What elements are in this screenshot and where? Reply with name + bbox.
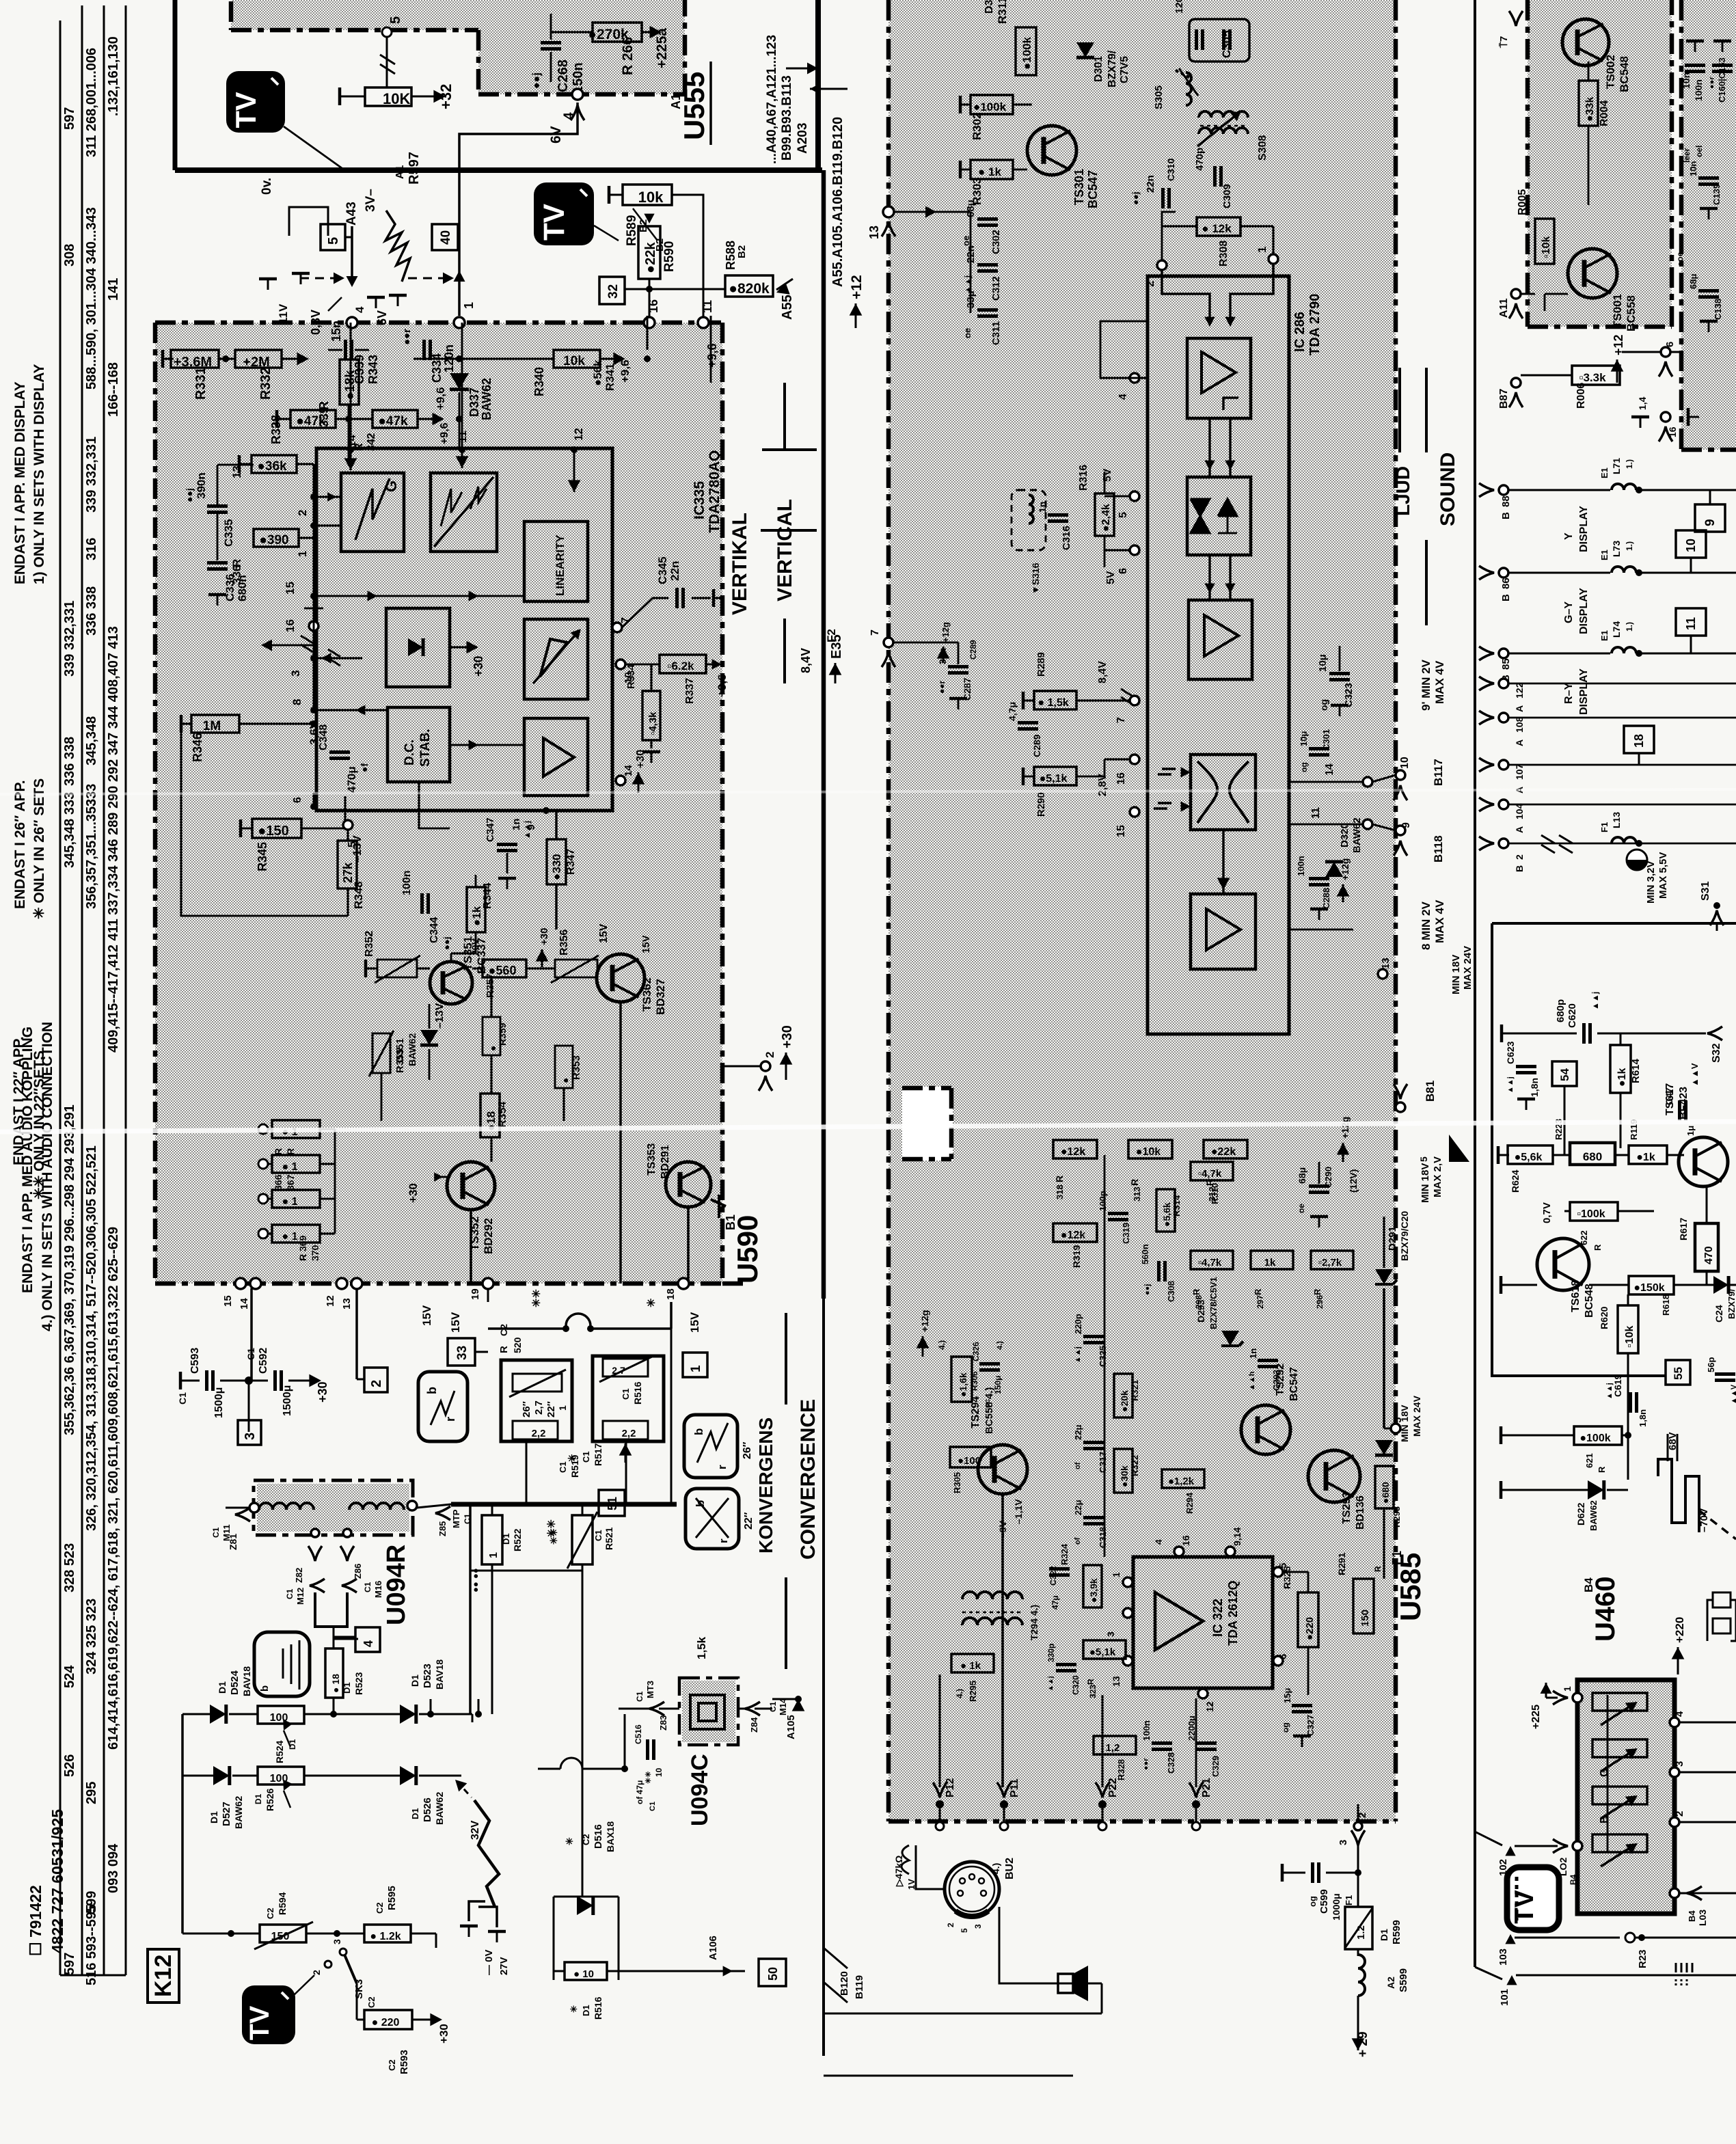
capacitor C344 100n — [422, 893, 429, 914]
svg-text:093 094: 093 094 — [106, 1843, 121, 1893]
svg-text:10: 10 — [654, 1767, 664, 1777]
svg-text:S308: S308 — [1257, 135, 1269, 161]
speaker symbol — [1058, 1974, 1073, 1993]
svg-text:C139: C139 — [1711, 184, 1722, 205]
svg-text:●2,4k: ●2,4k — [1100, 504, 1112, 532]
svg-text:R348: R348 — [352, 881, 365, 909]
svg-text:+9,6: +9,6 — [434, 387, 447, 410]
svg-text:3: 3 — [1105, 1631, 1116, 1637]
svg-text:R: R — [1597, 1466, 1607, 1473]
svg-text:B120: B120 — [839, 1971, 850, 1996]
LO2 pin left — [1573, 1841, 1582, 1851]
svg-text:11: 11 — [1310, 807, 1322, 819]
C623 1.8n — [1516, 1067, 1536, 1073]
svg-text:R519: R519 — [569, 1454, 580, 1478]
svg-text:+30: +30 — [780, 1025, 795, 1048]
svg-text:1M: 1M — [203, 719, 221, 733]
svg-text:C348: C348 — [318, 724, 329, 750]
svg-text:●5,6k: ●5,6k — [1161, 1202, 1172, 1227]
svg-text:D1: D1 — [409, 1674, 420, 1687]
svg-text:S31: S31 — [1700, 881, 1711, 901]
svg-text:1k: 1k — [1264, 1257, 1276, 1268]
svg-text:R325: R325 — [1281, 1566, 1292, 1589]
svg-text:680p: 680p — [1555, 999, 1567, 1022]
resistor R339 18k vertical — [340, 359, 359, 405]
svg-text:✳ ONLY IN 26″ SETS: ✳ ONLY IN 26″ SETS — [31, 778, 47, 919]
svg-text:D1: D1 — [410, 1808, 420, 1819]
svg-text:LINEARITY: LINEARITY — [554, 534, 567, 596]
svg-text:D1: D1 — [581, 2005, 591, 2016]
svg-text:680n: 680n — [236, 575, 249, 601]
+12 arrow right top — [1616, 359, 1618, 383]
scan crease line — [0, 1122, 1736, 1132]
C319 100p cap — [1108, 1214, 1128, 1220]
svg-text:C319: C319 — [1121, 1223, 1131, 1244]
R594 150 pot box — [254, 1922, 313, 1949]
svg-text:B99.B93.B113: B99.B93.B113 — [780, 75, 794, 161]
IC322 amp triangle — [1155, 1592, 1203, 1650]
svg-text:680: 680 — [1583, 1150, 1602, 1163]
resistor R589 10k — [623, 185, 672, 205]
27V 0V step symbol — [469, 1901, 485, 1921]
svg-text:+9,6: +9,6 — [705, 343, 719, 368]
svg-text:BC548: BC548 — [1584, 1284, 1595, 1318]
svg-text:C326: C326 — [971, 1342, 981, 1361]
DIN connector BU2 — [945, 1862, 999, 1916]
svg-text:SOUND: SOUND — [1437, 452, 1459, 526]
svg-text:+220: +220 — [1673, 1617, 1686, 1643]
svg-text:C335: C335 — [222, 519, 235, 547]
IC286 X block — [1191, 755, 1256, 830]
svg-text:101: 101 — [1499, 1989, 1510, 2006]
svg-text:.132,161,130: .132,161,130 — [106, 36, 121, 116]
svg-text:524: 524 — [62, 1665, 77, 1688]
resistor R334 4.3k vertical — [642, 691, 660, 740]
svg-text:R620: R620 — [1599, 1306, 1610, 1329]
svg-text:13: 13 — [230, 465, 243, 478]
svg-text:+30: +30 — [437, 2024, 450, 2044]
C307 39n cap — [948, 667, 968, 673]
transistor TS293 BD136 — [1308, 1450, 1360, 1502]
pin 1 bubble — [454, 317, 465, 328]
resistor R319 12k — [1053, 1223, 1097, 1242]
box 40 — [432, 224, 458, 250]
svg-text:VERTIKAL: VERTIKAL — [729, 513, 751, 615]
svg-text:1,2: 1,2 — [1106, 1742, 1120, 1754]
svg-text:C1: C1 — [593, 1530, 603, 1541]
box 51 — [599, 1490, 625, 1516]
transistor TS618 BC548 — [1537, 1238, 1589, 1290]
svg-text:R324: R324 — [1059, 1543, 1070, 1565]
svg-text:15V: 15V — [688, 1312, 701, 1333]
svg-text:100n: 100n — [1141, 1720, 1152, 1741]
svg-text:Y: Y — [1563, 532, 1575, 540]
svg-text:13: 13 — [1111, 1676, 1122, 1687]
svg-text:4: 4 — [353, 306, 366, 313]
svg-text:1: 1 — [462, 302, 476, 309]
svg-text:9,14: 9,14 — [1232, 1528, 1243, 1546]
pin 3 left edge — [310, 655, 317, 662]
diode BZX79 C24 — [1713, 1276, 1728, 1294]
svg-text:5: 5 — [326, 237, 341, 245]
wires around IC286 input — [1162, 212, 1176, 270]
svg-text:4.): 4.) — [996, 1341, 1004, 1350]
svg-text:C138: C138 — [1713, 299, 1723, 320]
svg-text:11: 11 — [1684, 617, 1698, 630]
svg-text:C308: C308 — [1166, 1281, 1176, 1302]
C300 C301 C288 caps cluster — [1309, 749, 1329, 755]
svg-text:R: R — [1054, 1176, 1065, 1182]
svg-text:C345: C345 — [656, 556, 669, 584]
transistor TS362 BD327 — [597, 954, 645, 1002]
svg-text:7: 7 — [869, 629, 881, 636]
svg-text:104: 104 — [1514, 803, 1525, 819]
R306 1.6k vertical — [951, 1357, 972, 1402]
svg-text:TDA2780AQ: TDA2780AQ — [707, 450, 722, 533]
row A104 — [1499, 800, 1508, 809]
svg-text:40: 40 — [439, 230, 453, 245]
svg-text:A55: A55 — [780, 295, 795, 320]
svg-text:Z85: Z85 — [437, 1521, 448, 1536]
svg-text:●20k: ●20k — [1119, 1390, 1130, 1412]
svg-text:KONVERGENS: KONVERGENS — [755, 1417, 776, 1553]
R589 pointer from TV logo — [594, 226, 619, 241]
box 2 — [364, 1368, 388, 1392]
svg-text:B81: B81 — [1424, 1081, 1437, 1102]
svg-text:R294: R294 — [1184, 1492, 1195, 1514]
svg-text:R617: R617 — [1678, 1217, 1689, 1240]
svg-text:R526: R526 — [265, 1788, 275, 1811]
103 arrow + R23 — [1505, 1934, 1515, 1944]
svg-text:● 1: ● 1 — [282, 1161, 297, 1173]
resistor R336 390 — [254, 529, 299, 547]
svg-text:18: 18 — [1632, 734, 1646, 748]
svg-text:●●j: ●●j — [531, 72, 543, 89]
A105 arrow — [795, 1696, 802, 1702]
svg-text:330p: 330p — [1046, 1644, 1056, 1662]
svg-text:Z86: Z86 — [353, 1564, 363, 1579]
svg-text:▲▲j: ▲▲j — [1047, 1676, 1055, 1692]
svg-text:MAX 4V: MAX 4V — [1433, 660, 1446, 704]
svg-text:D1: D1 — [288, 1739, 297, 1750]
big right box — [1492, 923, 1736, 1376]
svg-text:D524: D524 — [229, 1670, 241, 1695]
svg-text:C309: C309 — [1221, 184, 1233, 208]
svg-text:K12: K12 — [150, 1955, 176, 1997]
svg-text:4: 4 — [1674, 1711, 1685, 1717]
svg-text:CONVERGENCE: CONVERGENCE — [797, 1399, 819, 1560]
svg-text:A: A — [1514, 705, 1525, 712]
svg-text:C1: C1 — [363, 1582, 372, 1592]
A11 pin — [1511, 289, 1521, 299]
D516 BAX18 bracket unit — [553, 1897, 555, 1980]
svg-text:1.): 1.) — [1625, 622, 1634, 632]
pin 16 wire down — [644, 317, 655, 328]
svg-text:100n: 100n — [401, 871, 413, 895]
wire row2 — [182, 1775, 213, 1777]
svg-text:22″: 22″ — [743, 1512, 755, 1530]
svg-text:leer: leer — [1682, 148, 1692, 163]
svg-text:10k: 10k — [563, 354, 585, 368]
svg-text:BAW62: BAW62 — [233, 1796, 244, 1829]
resistor R302 100k — [971, 95, 1013, 114]
svg-text:og: og — [1299, 762, 1309, 772]
svg-text:▫10k: ▫10k — [1541, 236, 1552, 258]
svg-text:R343: R343 — [366, 355, 380, 384]
IC286 amp3 block — [1191, 894, 1256, 969]
svg-text:R356: R356 — [558, 929, 570, 955]
svg-text:BC558: BC558 — [1625, 295, 1638, 331]
svg-text:345,348 333: 345,348 333 — [62, 792, 77, 868]
svg-text:B119: B119 — [854, 1975, 865, 1999]
svg-text:F1: F1 — [1390, 1551, 1404, 1565]
svg-text:BAV18: BAV18 — [241, 1666, 252, 1696]
pin 4 bubble on border — [347, 317, 357, 328]
svg-text:R 266: R 266 — [620, 37, 636, 75]
R324 3.9k vertical — [1083, 1565, 1102, 1607]
svg-text:C316: C316 — [1061, 526, 1072, 550]
svg-text:614,414,616,619,622--624, 617: 614,414,616,619,622--624, 617,618, 321, … — [106, 1227, 121, 1750]
transistor TS353 BD291 — [666, 1162, 711, 1207]
pin 15 16 left edge — [310, 593, 317, 599]
S308 coil — [1199, 111, 1248, 118]
svg-text:100p: 100p — [1098, 1191, 1108, 1211]
svg-text:✳✳: ✳✳ — [531, 1289, 543, 1307]
thick horizontal separator line y=249 — [175, 167, 822, 173]
svg-text:●5,1k: ●5,1k — [1040, 773, 1068, 785]
svg-text:1: 1 — [488, 1552, 500, 1558]
svg-text:R: R — [1191, 1288, 1202, 1295]
svg-text:B4: B4 — [1582, 1577, 1595, 1592]
svg-text:U094R: U094R — [382, 1545, 411, 1625]
svg-text:✳✳: ✳✳ — [546, 1519, 558, 1538]
svg-text:9: 9 — [1703, 519, 1718, 526]
svg-text:16: 16 — [1180, 1535, 1191, 1546]
svg-text:●●r: ●●r — [1142, 1758, 1150, 1770]
row A122 — [1499, 679, 1508, 688]
R599 1.2 box — [1345, 1907, 1372, 1949]
svg-text:BAW62: BAW62 — [480, 378, 493, 420]
svg-text:M16: M16 — [373, 1581, 383, 1598]
svg-text:C2: C2 — [387, 2059, 397, 2071]
resistor R311 100k vertical — [1016, 27, 1036, 75]
svg-text:470p: 470p — [1194, 148, 1206, 171]
svg-text:BC547: BC547 — [1288, 1367, 1300, 1401]
svg-text:C301: C301 — [1321, 729, 1331, 750]
pin 9 bottom of IC335 — [543, 807, 550, 814]
svg-text:b: b — [259, 1685, 271, 1692]
C320 330p cap — [1056, 1665, 1076, 1671]
U094R coils — [259, 1503, 314, 1510]
resistor R303 1k — [971, 160, 1013, 179]
svg-text:336 338: 336 338 — [62, 737, 77, 786]
svg-text:2: 2 — [763, 1052, 776, 1058]
svg-text:27V: 27V — [498, 1957, 510, 1975]
svg-text:R295: R295 — [968, 1681, 978, 1702]
svg-text:520: 520 — [512, 1337, 523, 1353]
svg-text:b: b — [425, 1387, 439, 1394]
svg-text:R589: R589 — [625, 215, 639, 246]
svg-text:L74: L74 — [1611, 621, 1622, 638]
svg-text:✳: ✳ — [569, 2005, 579, 2013]
rounded box bVr 26 — [684, 1415, 737, 1478]
svg-text:+30: +30 — [407, 1183, 420, 1203]
svg-text:BAW62: BAW62 — [407, 1033, 418, 1066]
svg-text:● 12k: ● 12k — [1202, 222, 1232, 235]
pin 13 12 3 lower right of IC286 — [1378, 969, 1387, 979]
102 arrow — [1505, 1846, 1515, 1856]
svg-text:R521: R521 — [603, 1527, 614, 1550]
capacitor C311 33u — [977, 310, 998, 316]
svg-text:12: 12 — [572, 428, 585, 441]
display row G-Y B86 — [1499, 568, 1508, 578]
svg-text:55: 55 — [1672, 1367, 1685, 1380]
R314 5.6k vertical — [1156, 1189, 1175, 1232]
pin16 arrow left +9.6 — [267, 644, 314, 647]
U585 right edge nodes y2090 — [1391, 1424, 1400, 1433]
svg-text:R359: R359 — [497, 1022, 508, 1046]
module U585 SOUND halftone area — [889, 0, 1396, 1821]
U460 right pins — [1670, 1718, 1679, 1727]
svg-text:BAW62: BAW62 — [1588, 1500, 1599, 1531]
svg-text:323: 323 — [1088, 1685, 1098, 1698]
svg-text:C516: C516 — [634, 1724, 643, 1744]
svg-text:22″: 22″ — [545, 1401, 557, 1417]
svg-text:6: 6 — [1664, 342, 1676, 347]
R622 100k — [1570, 1202, 1618, 1221]
svg-text:C1: C1 — [768, 1701, 778, 1712]
svg-text:●47k: ●47k — [378, 414, 408, 429]
svg-text:R594: R594 — [277, 1892, 288, 1915]
svg-text:S599: S599 — [1398, 1968, 1409, 1992]
svg-text:3: 3 — [1674, 1761, 1685, 1767]
svg-text:E1: E1 — [1599, 467, 1610, 478]
resistor R588 820k — [725, 275, 773, 297]
S305 coil + C305 block — [1189, 19, 1249, 62]
svg-text:+30: +30 — [316, 1381, 329, 1402]
svg-text:●●j: ●●j — [184, 488, 195, 502]
svg-text:6: 6 — [1277, 1654, 1289, 1659]
svg-text:R–Y: R–Y — [1563, 683, 1575, 704]
Z85 MTP connector right — [435, 1506, 450, 1520]
resistor ladder R366-R370 — [272, 1120, 320, 1138]
svg-text:8 MIN 2V: 8 MIN 2V — [1420, 901, 1433, 950]
svg-text:▲▲j: ▲▲j — [1590, 992, 1600, 1010]
svg-text:166--168: 166--168 — [106, 362, 121, 417]
svg-text:R516: R516 — [632, 1381, 643, 1405]
svg-text:220p: 220p — [1073, 1314, 1083, 1334]
svg-text:B117: B117 — [1432, 759, 1445, 786]
capacitor C316 1n — [1048, 515, 1068, 521]
svg-text:+9,6: +9,6 — [619, 359, 632, 383]
svg-text:▷47kΩ: ▷47kΩ — [893, 1856, 904, 1887]
R323 5.1k — [1083, 1640, 1126, 1659]
Z84 M14 connectors — [745, 1702, 760, 1715]
svg-text:R341: R341 — [603, 363, 616, 391]
svg-text:R: R — [1086, 1679, 1096, 1685]
svg-text:526: 526 — [62, 1754, 77, 1777]
svg-text:●820k: ●820k — [729, 281, 770, 297]
diode D301 BZX79 — [1076, 42, 1094, 57]
svg-text:TS292: TS292 — [1275, 1363, 1286, 1396]
svg-text:●●r: ●●r — [937, 681, 947, 694]
svg-text:...A40,A67,A121...123: ...A40,A67,A121...123 — [765, 35, 779, 164]
svg-text:R23: R23 — [1637, 1949, 1649, 1968]
D291 zener BZX79/C20 — [1375, 1269, 1397, 1284]
svg-text:316: 316 — [84, 538, 99, 560]
svg-text:C2: C2 — [265, 1908, 275, 1919]
svg-text:C320: C320 — [1071, 1675, 1081, 1695]
svg-text:▫4,3k: ▫4,3k — [647, 711, 659, 735]
small 2-box component — [1713, 1592, 1731, 1607]
svg-text:150μ: 150μ — [993, 1376, 1003, 1394]
svg-text:1.2: 1.2 — [1355, 1925, 1367, 1940]
svg-text:A: A — [1514, 739, 1525, 746]
svg-text:● 18: ● 18 — [330, 1674, 341, 1693]
svg-text:68μ: 68μ — [1688, 274, 1698, 289]
svg-text:1500μ: 1500μ — [213, 1387, 225, 1418]
svg-text:C2: C2 — [581, 1834, 591, 1845]
svg-text:MAX 24V: MAX 24V — [1462, 946, 1474, 990]
svg-text:R004: R004 — [1599, 100, 1610, 126]
svg-text:● 10: ● 10 — [573, 1968, 594, 1980]
svg-text:●150: ●150 — [258, 824, 288, 839]
long vertical bus line x=2158 — [1474, 0, 1476, 1967]
C318 22u cap — [1083, 1518, 1104, 1524]
svg-text:●1,2k: ●1,2k — [1168, 1476, 1195, 1487]
svg-text:2,2: 2,2 — [532, 1428, 546, 1439]
svg-text:●f: ●f — [359, 763, 370, 772]
A55 arrow — [774, 282, 790, 299]
svg-text:R595: R595 — [386, 1886, 398, 1910]
transistor TS001 BC558 — [1568, 249, 1617, 298]
resistor row 47k 47k — [290, 410, 336, 428]
svg-text:C290: C290 — [1323, 1167, 1333, 1188]
svg-text:og: og — [1318, 699, 1329, 711]
svg-text:367: 367 — [285, 1174, 296, 1191]
svg-text:324 325 323: 324 325 323 — [84, 1599, 99, 1674]
R355 var resistor — [372, 1033, 390, 1073]
svg-text:4.): 4.) — [937, 1340, 947, 1350]
svg-text:R523: R523 — [353, 1672, 364, 1695]
svg-text:●1,6k: ●1,6k — [958, 1372, 968, 1397]
6V T symbols — [367, 297, 385, 308]
R522 1 vertical — [482, 1515, 502, 1564]
top-left box left border — [173, 0, 178, 170]
svg-text:P22: P22 — [1107, 1778, 1119, 1797]
680 R293 vertical — [1375, 1466, 1394, 1508]
C329 2200u — [1196, 1743, 1217, 1750]
TV logo 2 — [534, 182, 594, 245]
diode D526 row2 — [400, 1766, 416, 1785]
svg-text:R352: R352 — [364, 931, 375, 957]
IC322 pins — [1123, 1577, 1133, 1587]
svg-text:6: 6 — [1117, 568, 1129, 574]
R004 33k vertical — [1579, 81, 1598, 126]
left bus vertical — [181, 1714, 184, 1933]
R356 resistor — [555, 960, 597, 977]
svg-text:+12: +12 — [849, 275, 865, 299]
svg-text:+30: +30 — [539, 928, 550, 945]
capacitor C593 1500u — [207, 1370, 213, 1391]
svg-text:oel: oel — [1694, 146, 1704, 157]
svg-text:1000μ: 1000μ — [1331, 1893, 1342, 1921]
box 4 — [355, 1627, 380, 1652]
svg-text:1: 1 — [557, 1405, 568, 1411]
svg-text:1: 1 — [1111, 1572, 1122, 1577]
svg-text:B118: B118 — [1432, 835, 1445, 863]
pins 4 5 6 7 16 15 left edge IC286 — [1130, 373, 1139, 383]
